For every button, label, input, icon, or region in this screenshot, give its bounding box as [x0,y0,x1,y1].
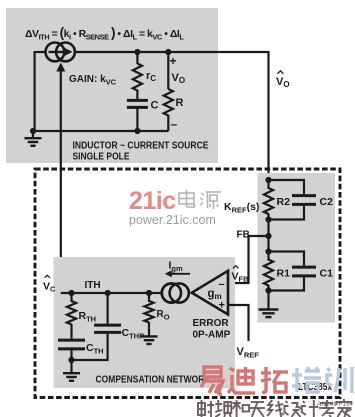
svg-text:0P-AMP: 0P-AMP [193,330,231,341]
node: rC/C branch bottom [134,128,140,134]
resistor R1 [264,260,273,286]
wire: RO to ground [148,322,150,336]
node: CTHP branch [105,290,111,296]
top gray box: inductor-current source model [6,8,218,163]
node: FB junction [265,233,271,239]
capacitor CTH [58,339,85,342]
wire: FB to op-amp minus input [228,236,269,283]
watermark dianyuan char 1 (dian) [179,190,195,207]
wire: bottom rail [33,130,168,132]
svg-text:COMPENSATION NETWORK: COMPENSATION NETWORK [96,375,212,386]
wire: divider main vertical (segments around resistors) [267,180,269,189]
svg-text:SINGLE POLE: SINGLE POLE [73,152,130,163]
svg-text:–: – [171,117,178,131]
svg-text:ERROR: ERROR [193,318,230,329]
resistor rC [133,64,142,91]
current source CS1 (two overlapping circles) [46,43,65,62]
watermark char di (red) [228,367,255,393]
capacitor C2 [292,194,316,197]
svg-text:+: + [219,300,225,312]
ground (divider) [259,308,279,310]
wire: CTHP top [106,293,108,324]
wire: R branch bottom stub [167,115,169,131]
wire: CTH bottom to node [70,350,72,360]
wire: rC branch stub [136,52,138,64]
watermark dianyuan char 2 (yuan) [200,192,221,209]
wire: rC to C [136,90,138,99]
node: R branch top [165,49,171,55]
dashed boundary box (LTC385x) [35,169,340,398]
divider gray box [258,173,336,323]
node: R1 bottom [265,287,271,293]
resistor RO [148,293,150,302]
wire/loop: C1 branch [269,252,305,266]
node: RO branch [146,290,152,296]
watermark char tuo (red) [261,367,288,392]
svg-text:+: + [170,54,177,68]
wire: right vertical (VO sense) down to divider [267,51,269,181]
wire: top rail left segment [35,51,46,53]
watermark char pei (blue) [292,367,321,392]
resistor RTH [70,293,72,302]
control wire from ITH up to CS1 with arrowhead [60,69,62,293]
node: R2 top [265,177,271,183]
node: bottom-left junction [30,128,36,134]
wire: left vertical [33,51,35,131]
svg-text:INDUCTOR ~ CURRENT SOURCE: INDUCTOR ~ CURRENT SOURCE [73,141,209,152]
wire: RTH to CTH [70,324,72,339]
watermark slogan row (partially cut) [198,400,214,417]
ground (comp network left) [70,360,72,373]
wire: top rail right of CS1 [75,51,269,53]
resistor R [164,89,173,116]
svg-text:–: – [219,279,225,291]
svg-text:R1: R1 [277,268,291,280]
CS1 right-pointing arrow [49,51,66,53]
wire: plus input to VREF [228,305,249,341]
capacitor C1 [292,266,316,269]
wire: CTHP bottom [106,334,108,361]
watermark char yi (red) [201,367,223,394]
svg-text:C2: C2 [320,196,334,208]
svg-text:R: R [176,97,184,109]
watermark char xun (blue) [327,367,352,393]
svg-text:ITH: ITH [85,280,101,291]
svg-text:C1: C1 [320,268,334,280]
node: rC branch top [134,49,140,55]
svg-text:power.21ic.com: power.21ic.com [129,213,216,227]
node: RTH/CTH/CTHP bottom [68,357,74,363]
node: R2 bottom [265,216,271,222]
capacitor C [127,99,148,102]
ground (RO) [141,335,158,337]
capacitor CTHP [94,324,121,327]
op-amp U1 (error amp, gm) [192,271,228,315]
ground (top box, bottom-left) [32,131,34,138]
wire: R branch top stub [167,52,169,89]
svg-text:21ic: 21ic [129,187,176,215]
hat over VO [277,71,283,74]
svg-text:C: C [151,100,159,112]
current source CS2 (gm output) [162,283,181,302]
svg-text:R2: R2 [277,196,291,208]
compensation network gray box [54,257,236,388]
wire: bottom tie to CTHP [72,359,108,361]
wire: C bottom to rail [136,109,138,132]
node: R1 top [265,248,271,254]
resistor R2 [264,188,273,214]
node: RTH branch [68,290,74,296]
wire: ITH rail [61,292,163,294]
wire/loop: C2 branch [269,180,305,194]
